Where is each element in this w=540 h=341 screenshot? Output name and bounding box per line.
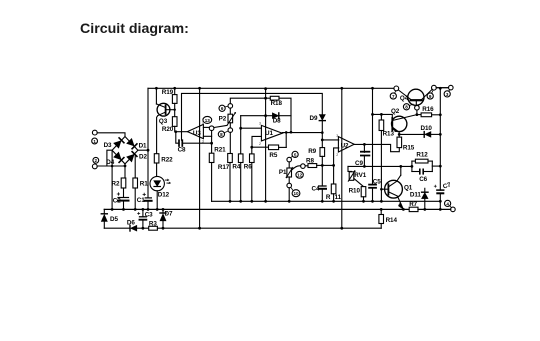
svg-text:R6: R6 (244, 164, 252, 171)
wire R6 to bus A (250, 163, 253, 203)
svg-text:C7: C7 (442, 181, 452, 190)
svg-text:C4: C4 (312, 186, 320, 193)
svg-text:2: 2 (336, 153, 338, 157)
svg-text:R22: R22 (161, 157, 173, 164)
terminal circle P1 wiper (301, 164, 306, 169)
svg-text:P1: P1 (279, 169, 287, 176)
svg-text:P2: P2 (219, 115, 227, 122)
svg-text:D5: D5 (110, 216, 118, 223)
wire R18 right down to output node (279, 98, 291, 132)
resistor R21 (209, 147, 226, 163)
svg-text:C1: C1 (137, 197, 145, 204)
wire bridge bottom to R2 (124, 164, 126, 178)
transistor Q2 (391, 108, 417, 132)
pin 8 under Q4 (403, 104, 413, 110)
wire bus B left segment (104, 208, 409, 210)
svg-text:C2: C2 (113, 198, 121, 205)
capacitor C1 (137, 193, 152, 211)
wire U2 minus branch via R11 (322, 148, 338, 184)
svg-text:4: 4 (446, 201, 449, 206)
resistor R3 (149, 220, 158, 230)
diode D3 (104, 138, 124, 149)
wire D12 to 0V bus (156, 191, 159, 211)
svg-text:R8: R8 (306, 158, 314, 165)
svg-text:12: 12 (297, 173, 303, 178)
resistor R1 (133, 178, 148, 188)
wire U2 power rail (340, 88, 343, 229)
svg-text:R1: R1 (140, 181, 148, 188)
svg-text:R13: R13 (383, 130, 395, 137)
wire V+ rail left leg down through C1 (147, 88, 149, 197)
svg-text:D8: D8 (273, 117, 281, 124)
svg-text:1: 1 (93, 139, 96, 144)
terminal circle P2 top (228, 104, 233, 109)
wire terminal1 to bridge top (97, 133, 125, 137)
wire U1 output (282, 131, 323, 134)
svg-text:7: 7 (392, 94, 395, 99)
svg-text:C5: C5 (373, 178, 381, 185)
terminal circle Q4 base (415, 105, 420, 110)
wire P2 top to V+ branch (230, 98, 270, 103)
terminal pin 13 (203, 116, 214, 130)
resistor R13 (379, 114, 394, 137)
pin 9 right of Q4 (427, 90, 433, 99)
junction V+ branch with U1 rail (264, 97, 267, 100)
svg-text:2: 2 (259, 142, 261, 146)
svg-text:C6: C6 (419, 176, 427, 183)
wire right rail (439, 88, 442, 211)
svg-text:8: 8 (405, 105, 408, 110)
resistor R18 (270, 96, 282, 107)
wire pin13 node down to R21 (211, 131, 213, 154)
wire R11 to bus A (332, 194, 335, 203)
bridge rectifier diamond (112, 137, 138, 164)
op-amp U2 (336, 134, 354, 157)
wire U2 output (354, 143, 399, 152)
wire D9 to U2 plus node (321, 121, 339, 148)
capacitor C6 (412, 169, 432, 183)
wire Q2 base (373, 113, 393, 119)
svg-text:9: 9 (429, 94, 432, 99)
pin 6 (219, 105, 228, 111)
svg-text:D3: D3 (104, 142, 112, 149)
terminal 1 (92, 130, 98, 144)
capacitor C2 (113, 193, 129, 211)
diode D4 (106, 153, 124, 167)
diode D11 (410, 188, 428, 211)
svg-text:13: 13 (205, 118, 211, 123)
diode D6 (127, 220, 143, 231)
pin 10 (291, 188, 300, 197)
wire bus C segment (143, 227, 149, 229)
svg-text:R7: R7 (409, 201, 417, 208)
diode D10 (399, 125, 441, 137)
svg-text:3: 3 (336, 134, 338, 138)
svg-text:3: 3 (446, 92, 449, 97)
svg-text:Q4: Q4 (400, 95, 409, 102)
svg-text:R20: R20 (162, 126, 174, 133)
resistor R8 (305, 158, 322, 168)
wire R2 to C2 (123, 188, 125, 197)
resistor R16 (417, 106, 442, 117)
capacitor C4 (312, 186, 327, 203)
resistor R2 (112, 178, 126, 188)
capacitor C5 (369, 178, 381, 202)
svg-text:R16: R16 (422, 106, 434, 113)
wire R20 to U3 output node (175, 126, 178, 133)
svg-text:R4: R4 (232, 164, 240, 171)
resistor R11 (326, 184, 342, 201)
loop R12 C6 right side to rail (432, 161, 441, 171)
svg-text:D12: D12 (158, 192, 170, 199)
wire D8 left (266, 115, 273, 117)
svg-text:R19: R19 (162, 89, 174, 96)
wire P2 wiper to pin13 node (214, 125, 227, 127)
diode D7 (160, 208, 173, 230)
diode D2 (127, 152, 147, 162)
terminal 4 (445, 200, 456, 211)
resistor R14 (379, 208, 398, 228)
svg-text:RV1: RV1 (354, 172, 366, 179)
wire R19 to R20 (Q3 base node) (174, 103, 176, 116)
wire R9 to node (321, 156, 324, 186)
svg-text:R14: R14 (386, 217, 398, 224)
wire C8 right to inverting node (183, 142, 213, 145)
svg-text:Q1: Q1 (404, 184, 413, 191)
wire R1 to 0V bus (134, 188, 137, 211)
svg-text:D11: D11 (410, 192, 422, 199)
wire R22 to D12 (156, 163, 158, 176)
svg-text:5: 5 (294, 152, 297, 157)
svg-text:D1: D1 (139, 143, 147, 150)
wire D2 edge tap down through R1 (134, 156, 136, 178)
svg-text:D4: D4 (106, 159, 114, 166)
wire bus B right segment to terminal 4 (402, 208, 451, 211)
terminal 3 (436, 85, 453, 97)
svg-text:D9: D9 (310, 115, 318, 122)
svg-text:Q3: Q3 (159, 118, 168, 125)
wire R4 column (V+ branch to U1 plus and R4) (239, 116, 265, 154)
terminal 2 (92, 157, 98, 168)
wire C5 rail (371, 88, 374, 184)
op-amp U1 (259, 122, 282, 147)
resistor R10 (349, 187, 366, 197)
pin 9 (291, 151, 298, 157)
wire RV1 wiper to R10 (354, 179, 364, 187)
svg-text:R9: R9 (308, 148, 316, 155)
LED D12 (150, 176, 171, 198)
svg-text:D2: D2 (139, 153, 147, 160)
svg-text:R18: R18 (271, 100, 283, 107)
svg-text:R: R (326, 194, 331, 201)
svg-text:Q2: Q2 (391, 108, 400, 115)
wire R17 to bus A (229, 163, 232, 203)
svg-text:C3: C3 (145, 211, 153, 218)
svg-text:R3: R3 (149, 220, 157, 227)
wire U1 plus input (241, 127, 262, 129)
svg-text:2: 2 (95, 158, 98, 163)
wire P1 wiper to R8 (292, 166, 301, 171)
wire Q3 emitter to V+ (155, 88, 157, 104)
wire R10 to bus A (362, 197, 365, 203)
transistor Q3 (156, 103, 174, 125)
svg-text:D10: D10 (421, 125, 433, 132)
svg-text:R10: R10 (349, 187, 361, 194)
wire Q4 base node to R16 (416, 110, 419, 116)
pin 8 (218, 131, 227, 137)
capacitor C7 (434, 181, 452, 193)
wire R21 to bus A (211, 163, 213, 202)
wire bridge right corner to V+ rail (138, 149, 150, 152)
svg-text:R2: R2 (112, 181, 120, 188)
svg-text:11: 11 (335, 194, 342, 201)
wire P2 bottom to R17 (229, 132, 231, 153)
svg-text:D6: D6 (127, 220, 135, 227)
wire U3 output (176, 131, 188, 133)
wire R4 to bus A (239, 163, 242, 203)
wire U1 power rail (264, 89, 267, 203)
resistor R4 (232, 154, 243, 171)
terminal circle P2 bottom (228, 128, 233, 133)
wire V+ top rail (148, 87, 449, 90)
op-amp U3 (187, 121, 204, 144)
svg-text:D7: D7 (165, 210, 173, 217)
svg-text:6: 6 (221, 106, 224, 111)
pin 7 (390, 91, 396, 99)
wire Q2 emitter node (398, 132, 401, 136)
capacitor C9 (355, 144, 369, 166)
wire U3 plus input to pin13 (203, 126, 209, 128)
wire terminal2 to bridge bottom node (97, 165, 126, 168)
capacitor C8 (178, 140, 186, 153)
wire bus A (212, 200, 441, 202)
svg-text:3: 3 (259, 122, 261, 126)
resistor R15 (397, 134, 415, 151)
resistor R22 (154, 154, 173, 164)
diode D1 (127, 139, 147, 150)
pin 12 (296, 171, 303, 178)
svg-text:8: 8 (220, 132, 223, 137)
svg-text:10: 10 (293, 191, 299, 196)
svg-text:C9: C9 (355, 160, 363, 167)
wire U3 output node down to C8 left (176, 132, 179, 144)
wire bus C middle (157, 227, 381, 229)
resistor R7 in bus B (409, 201, 418, 211)
wire Q1 collector to comp node (400, 166, 402, 175)
svg-text:R5: R5 (269, 152, 277, 159)
wire Q3 collector to R22 (157, 116, 158, 154)
svg-text:C8: C8 (178, 146, 186, 153)
terminal circle P1 bottom (287, 183, 292, 188)
terminal circle P1 top (287, 157, 292, 162)
svg-text:U3: U3 (193, 130, 201, 137)
transistor Q1 (381, 175, 412, 209)
wire P1 bottom to bus A (288, 188, 291, 203)
diode D8 (272, 113, 291, 125)
svg-text:R15: R15 (403, 145, 415, 152)
diode D9 (310, 115, 326, 122)
resistor R6 (244, 147, 254, 170)
diode D5 (101, 209, 118, 228)
wire R13 column down to bus A (380, 131, 383, 203)
resistor R9 (308, 148, 324, 157)
svg-text:U1: U1 (265, 130, 273, 137)
transistor Q4 (394, 85, 436, 105)
potentiometer P2 (219, 108, 237, 128)
wire U3 minus input (203, 135, 211, 137)
resistor R19 (162, 88, 177, 103)
resistor R17 (218, 154, 232, 172)
wire bus C (104, 227, 129, 229)
resistor R20 (162, 117, 177, 133)
svg-text:R21: R21 (214, 147, 226, 154)
resistor R5 feedback (269, 132, 287, 158)
loop R12 C6 left side (411, 161, 413, 171)
wire bridge left corner down to AC node and 0V bus (107, 150, 114, 211)
svg-text:R12: R12 (416, 151, 428, 158)
potentiometer P1 (279, 162, 293, 183)
wire U1 minus input branch (250, 136, 268, 148)
wire secondary rail to D9 (182, 93, 323, 140)
wire U3 power rail vertical (198, 88, 201, 229)
svg-text:R17: R17 (218, 164, 230, 171)
wire compensation node y166 (348, 165, 413, 168)
resistor R12 (412, 151, 432, 163)
capacitor C3 (138, 208, 154, 230)
trimmer RV1 (348, 166, 367, 181)
